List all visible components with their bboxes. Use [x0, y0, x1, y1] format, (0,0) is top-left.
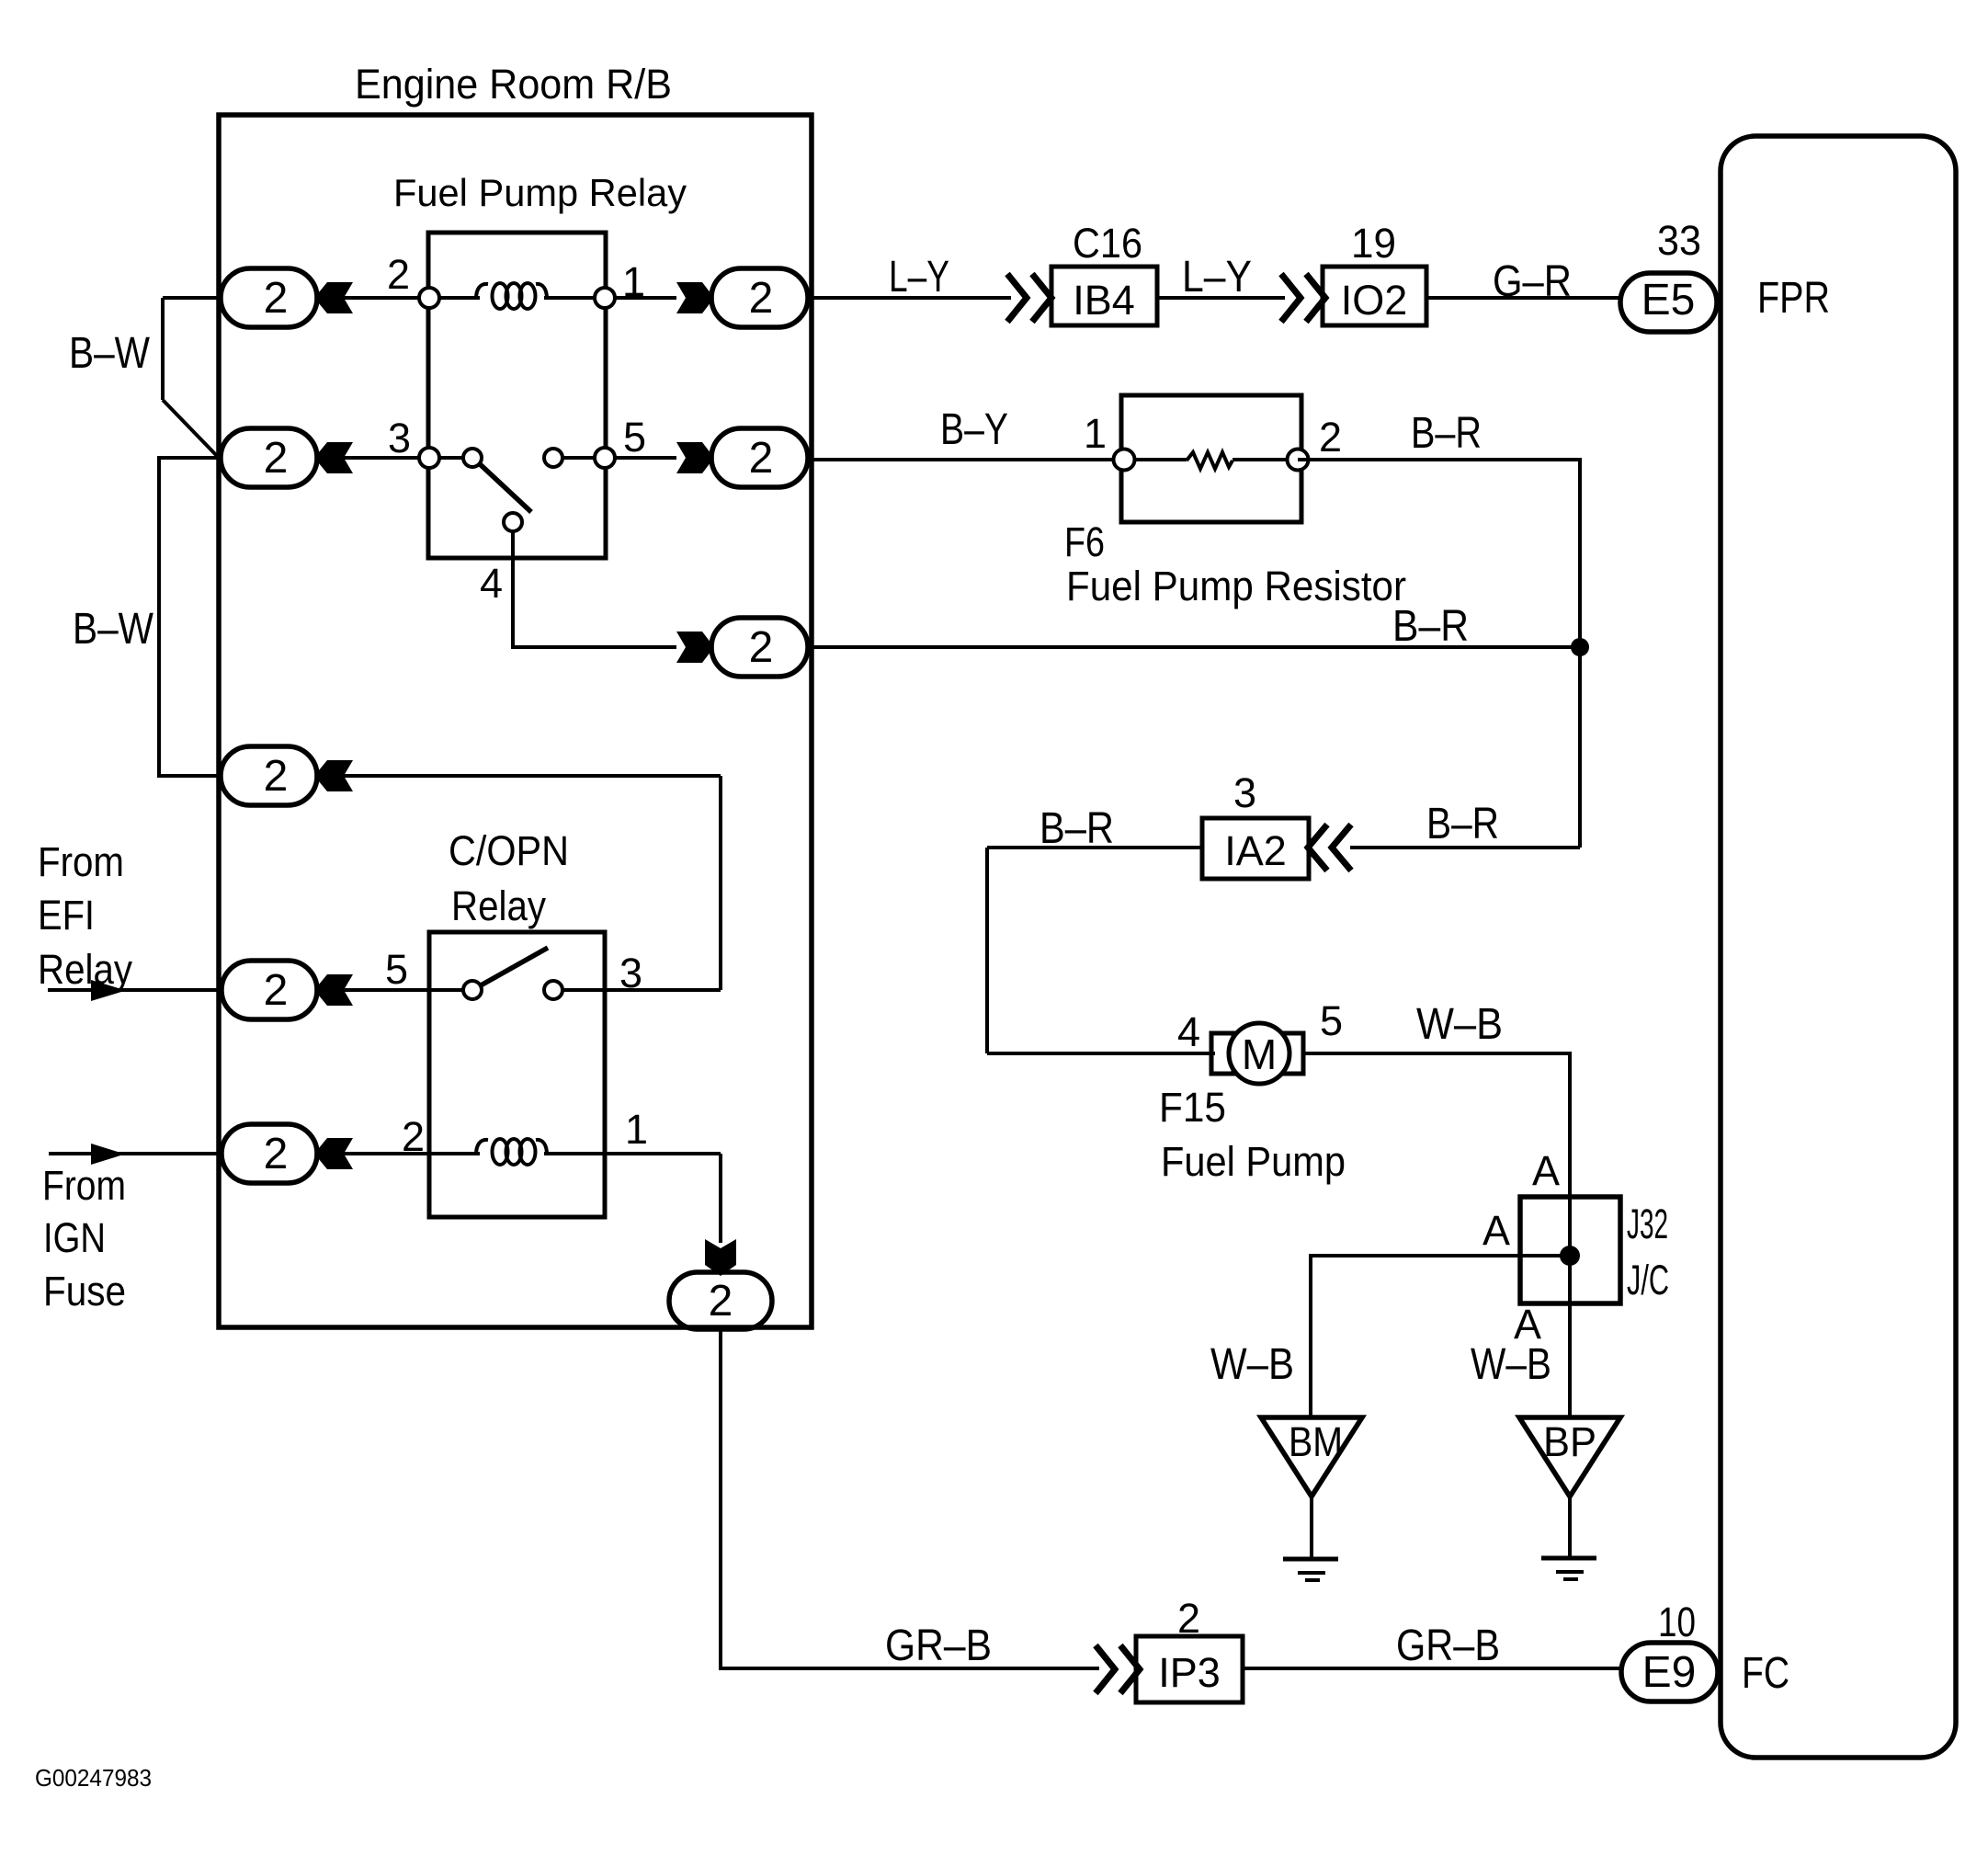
connector IA2 box: [1202, 818, 1309, 879]
C/OPN relay box: [429, 932, 605, 1217]
svg-text:IA2: IA2: [1224, 827, 1287, 874]
connector IB4 box: [1051, 267, 1157, 325]
chevron arrow out row1 right: [676, 282, 714, 313]
svg-text:Relay: Relay: [38, 946, 132, 993]
wire from EFI relay: [48, 988, 221, 992]
connector pill 2 (row2 left): [221, 428, 317, 487]
wire contact to pin 3 and out: [562, 988, 721, 992]
resistor wire pin1 side: [1124, 458, 1187, 461]
svg-text:IGN: IGN: [43, 1214, 106, 1261]
wire B-W vertical row2 to row3: [159, 458, 221, 776]
wire IB4 to IO2: [1157, 296, 1285, 300]
svg-text:C16: C16: [1073, 220, 1142, 267]
connector IP3 box: [1136, 1636, 1243, 1702]
svg-text:C/OPN: C/OPN: [449, 827, 569, 874]
svg-text:2: 2: [709, 1277, 733, 1326]
svg-text:B–R: B–R: [1411, 409, 1482, 458]
svg-text:2: 2: [264, 434, 289, 483]
chevron arrow out row3 right: [676, 632, 714, 663]
svg-text:IP3: IP3: [1158, 1649, 1221, 1696]
connector IO2 box: [1323, 267, 1426, 325]
F6 fuel pump resistor box: [1121, 395, 1301, 522]
svg-text:W–B: W–B: [1210, 1340, 1294, 1389]
junction dot inside J32: [1560, 1246, 1580, 1266]
svg-text:2: 2: [264, 1130, 289, 1178]
BP triangle: [1519, 1417, 1620, 1497]
Engine Room R/B box: [219, 115, 812, 1327]
svg-text:L–Y: L–Y: [889, 253, 949, 302]
svg-text:A: A: [1532, 1147, 1560, 1194]
arrowhead IGN: [91, 1144, 125, 1165]
chevron arrow out row2 right: [676, 442, 714, 473]
svg-text:2: 2: [402, 1113, 425, 1160]
BM triangle: [1261, 1417, 1362, 1497]
svg-text:2: 2: [1177, 1595, 1200, 1642]
C/OPN switch contact left: [463, 981, 482, 999]
wire pill to C/OPN contact: [335, 988, 472, 992]
wire from pin 4 down and right: [513, 531, 676, 647]
switch contact circle left: [463, 449, 482, 467]
connector pill 2 (IGN row left): [222, 1124, 317, 1183]
wire B-R from F6 pin2 to right vertical: [1298, 460, 1580, 848]
svg-text:4: 4: [480, 560, 503, 607]
relay pin 3 terminal circle: [419, 448, 439, 468]
wire pill to C/OPN coil: [335, 1152, 480, 1155]
svg-text:J32: J32: [1627, 1201, 1668, 1247]
wire through J32 down to BP: [1568, 1197, 1572, 1417]
svg-text:Fuel Pump Resistor: Fuel Pump Resistor: [1066, 563, 1406, 609]
chevron arrow into pill row2 left: [314, 442, 353, 473]
wire vertical down to fuel pump row: [985, 848, 989, 1053]
svg-text:BM: BM: [1289, 1418, 1343, 1465]
svg-text:IB4: IB4: [1073, 277, 1135, 324]
chevron arrow into pill row1 left: [314, 282, 353, 313]
svg-text:4: 4: [1177, 1008, 1200, 1055]
double chevron into IB4: [1007, 274, 1027, 322]
svg-text:EFI: EFI: [38, 892, 95, 939]
svg-text:GR–B: GR–B: [1396, 1622, 1500, 1670]
svg-text:B–Y: B–Y: [940, 405, 1008, 454]
wire IA2 right segment: [1350, 846, 1580, 849]
wire BP to ground: [1568, 1497, 1572, 1558]
svg-text:33: 33: [1657, 217, 1701, 264]
connector pill 2 (bottom): [669, 1272, 772, 1329]
svg-text:Fuel Pump Relay: Fuel Pump Relay: [393, 171, 687, 214]
motor left brush plate: [1211, 1033, 1233, 1074]
junction dot B-R: [1571, 638, 1589, 656]
svg-text:1: 1: [622, 258, 645, 305]
connector pill E5: [1620, 273, 1717, 332]
relay coil (fuel pump relay): [476, 284, 488, 299]
relay pin 2 terminal circle: [419, 288, 439, 308]
F6 pin 2 circle: [1288, 450, 1309, 471]
wire G-R to E5: [1426, 296, 1620, 300]
C/OPN relay coil: [476, 1140, 488, 1155]
svg-text:E5: E5: [1642, 276, 1696, 324]
svg-text:B–R: B–R: [1392, 602, 1469, 651]
wire IP3 to E9: [1243, 1667, 1621, 1670]
wire B-R row3 to junction: [807, 645, 1580, 649]
svg-text:2: 2: [264, 752, 289, 801]
svg-text:2: 2: [749, 274, 774, 323]
chevron arrow into pill row3 left: [314, 760, 353, 791]
wire L-Y to IB4: [807, 296, 1011, 300]
connector pill 2 (row1 right): [711, 268, 808, 327]
resistor zigzag: [1187, 452, 1233, 469]
svg-text:G00247983: G00247983: [35, 1764, 152, 1792]
svg-text:1: 1: [625, 1106, 648, 1153]
svg-text:Engine Room R/B: Engine Room R/B: [355, 61, 672, 108]
svg-text:Relay: Relay: [451, 882, 546, 929]
svg-text:3: 3: [388, 415, 411, 461]
wire pill to relay pin 2: [335, 296, 480, 300]
wire stub left of connector 2 row1: [163, 296, 221, 300]
svg-text:Fuel Pump: Fuel Pump: [1161, 1138, 1346, 1185]
wire J32 left branch: [1311, 1256, 1570, 1417]
double chevron into IA2 (pointing left): [1332, 825, 1351, 871]
chevron arrow into pill IGN row: [314, 1138, 353, 1169]
wire from IGN fuse: [49, 1152, 222, 1155]
svg-text:2: 2: [264, 274, 289, 323]
svg-text:L–Y: L–Y: [1182, 253, 1252, 302]
svg-text:2: 2: [387, 251, 410, 298]
svg-text:19: 19: [1351, 220, 1396, 267]
svg-text:2: 2: [749, 623, 774, 672]
F6 pin 1 circle: [1114, 450, 1135, 471]
svg-text:2: 2: [749, 434, 774, 483]
svg-text:5: 5: [1320, 997, 1343, 1044]
svg-text:1: 1: [1084, 410, 1107, 457]
svg-text:F6: F6: [1064, 518, 1105, 565]
double chevron into IP3: [1096, 1645, 1115, 1693]
svg-text:From: From: [38, 838, 124, 885]
C/OPN switch blade: [481, 948, 548, 985]
wire BM to ground: [1310, 1497, 1313, 1559]
svg-text:2: 2: [1319, 414, 1342, 461]
connector pill 2 (row2 right): [711, 428, 808, 487]
connector pill E9: [1621, 1643, 1718, 1701]
resistor wire pin2 side: [1233, 458, 1298, 461]
switch contact circle right: [544, 449, 562, 467]
svg-text:F15: F15: [1159, 1084, 1226, 1131]
relay pin 5 terminal circle: [595, 448, 615, 468]
svg-text:B–W: B–W: [69, 329, 151, 378]
svg-text:B–W: B–W: [73, 605, 154, 654]
svg-text:GR–B: GR–B: [885, 1622, 992, 1670]
relay pin 1 terminal circle: [595, 288, 615, 308]
switch blade (fuel pump relay): [478, 462, 531, 512]
wire from bottom pill down and right: [721, 1329, 1099, 1668]
svg-text:3: 3: [619, 950, 642, 996]
wire pill to relay pin 3: [335, 456, 472, 460]
svg-text:G–R: G–R: [1493, 257, 1572, 306]
svg-text:J/C: J/C: [1627, 1257, 1669, 1303]
svg-text:2: 2: [264, 966, 289, 1015]
svg-text:From: From: [42, 1162, 126, 1209]
wire to motor pin 4: [987, 1052, 1215, 1055]
svg-text:E9: E9: [1642, 1648, 1697, 1697]
wire vertical x784 down to bottom pill: [719, 1154, 722, 1243]
motor right brush plate: [1283, 1033, 1303, 1074]
svg-text:Fuse: Fuse: [43, 1268, 126, 1314]
svg-text:M: M: [1242, 1030, 1277, 1078]
wire B-W diagonal to row2: [163, 400, 219, 458]
svg-text:3: 3: [1233, 769, 1256, 816]
connector pill 2 (row3 right): [711, 618, 808, 677]
connector pill 2 (row3 left): [221, 746, 317, 805]
wire B-W vertical row1: [161, 298, 165, 400]
double chevron into IO2: [1281, 274, 1301, 322]
svg-text:FC: FC: [1742, 1649, 1789, 1698]
svg-text:10: 10: [1658, 1599, 1696, 1645]
connector pill 2 (row1 left): [221, 268, 317, 327]
svg-text:IO2: IO2: [1341, 277, 1408, 324]
FPR connector box: [1721, 136, 1956, 1758]
connector pill 2 (EFI row left): [222, 961, 317, 1019]
Fuel Pump Relay box: [428, 233, 606, 558]
ground symbol BM: [1283, 1557, 1338, 1562]
wire motor to W-B vertical: [1303, 1053, 1570, 1197]
svg-text:5: 5: [385, 946, 408, 993]
arrowhead EFI: [91, 980, 126, 1001]
chevron arrow into pill EFI row: [314, 974, 353, 1006]
motor circle F15: [1229, 1023, 1289, 1084]
wire B-Y to F6 pin 1: [807, 458, 1124, 461]
svg-text:FPR: FPR: [1757, 274, 1830, 323]
wire contact to pin 5: [553, 456, 676, 460]
J32 J/C box: [1520, 1197, 1620, 1303]
ground symbol BP: [1541, 1556, 1596, 1561]
wire coil to pin 1 and out to chevron: [544, 296, 676, 300]
svg-text:A: A: [1482, 1207, 1510, 1254]
svg-text:B–R: B–R: [1426, 800, 1499, 848]
svg-text:W–B: W–B: [1471, 1340, 1551, 1389]
svg-text:5: 5: [623, 414, 646, 461]
wire row3 left long horizontal: [335, 774, 721, 778]
svg-text:W–B: W–B: [1416, 1000, 1503, 1049]
C/OPN switch contact right: [544, 981, 562, 999]
wire vertical x784 row3 to C/OPN switch row: [719, 776, 722, 990]
wire IA2 left segment: [987, 846, 1202, 849]
wire coil to pin1 and out to x784: [544, 1152, 721, 1155]
switch common contact circle (pin 4): [504, 513, 522, 531]
svg-text:BP: BP: [1543, 1418, 1596, 1465]
chevron arrow down into bottom pill: [705, 1239, 736, 1276]
